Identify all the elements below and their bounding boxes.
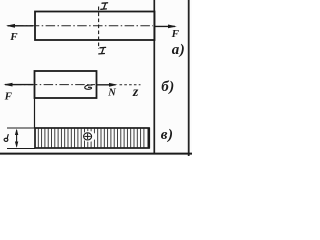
svg-text:F: F (4, 91, 13, 103)
svg-text:F: F (9, 31, 18, 43)
svg-text:z: z (132, 85, 139, 100)
svg-text:N: N (107, 87, 116, 98)
svg-text:в): в) (161, 127, 174, 143)
svg-text:б): б) (161, 79, 174, 95)
svg-text:F: F (171, 28, 180, 40)
svg-text:а): а) (172, 42, 186, 58)
